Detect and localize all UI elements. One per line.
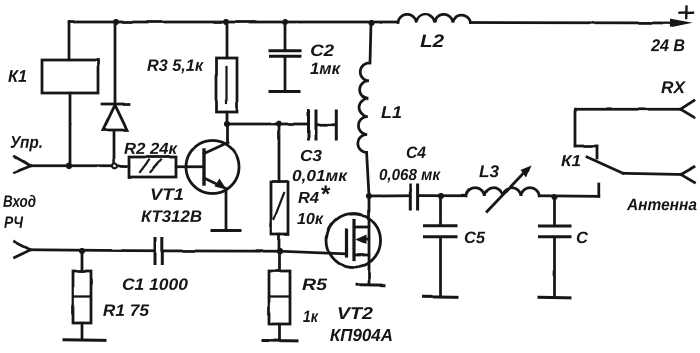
- svg-text:10к: 10к: [297, 211, 324, 228]
- svg-text:0,068 мк: 0,068 мк: [379, 167, 441, 184]
- svg-text:VT2: VT2: [337, 304, 374, 323]
- svg-text:L2: L2: [420, 31, 444, 51]
- svg-text:R3 5,1к: R3 5,1к: [147, 57, 205, 75]
- svg-text:РЧ: РЧ: [4, 214, 23, 232]
- svg-text:L3: L3: [479, 162, 500, 181]
- svg-text:R4: R4: [298, 190, 319, 207]
- svg-text:1к: 1к: [303, 308, 319, 326]
- svg-text:R2 24к: R2 24к: [124, 141, 178, 158]
- svg-text:С5: С5: [464, 229, 486, 247]
- svg-text:КТ312В: КТ312В: [141, 208, 202, 226]
- svg-text:С4: С4: [406, 144, 426, 162]
- svg-text:К1: К1: [8, 67, 27, 86]
- svg-text:L1: L1: [381, 103, 402, 122]
- svg-text:С3: С3: [300, 148, 322, 165]
- svg-text:*: *: [320, 181, 331, 208]
- svg-text:RX: RX: [661, 78, 687, 97]
- svg-text:1мк: 1мк: [310, 60, 342, 78]
- svg-text:Вход: Вход: [3, 193, 36, 211]
- svg-text:КП904А: КП904А: [330, 325, 393, 345]
- svg-text:К1: К1: [561, 153, 581, 170]
- svg-text:R1 75: R1 75: [103, 302, 150, 320]
- svg-text:R5: R5: [302, 276, 328, 294]
- svg-text:VT1: VT1: [150, 186, 184, 204]
- svg-text:24 В: 24 В: [650, 36, 685, 55]
- svg-text:С2: С2: [310, 42, 334, 60]
- svg-text:С: С: [576, 229, 589, 247]
- svg-text:С1 1000: С1 1000: [122, 276, 189, 294]
- svg-text:Антенна: Антенна: [626, 196, 697, 214]
- svg-text:Упр.: Упр.: [10, 133, 43, 152]
